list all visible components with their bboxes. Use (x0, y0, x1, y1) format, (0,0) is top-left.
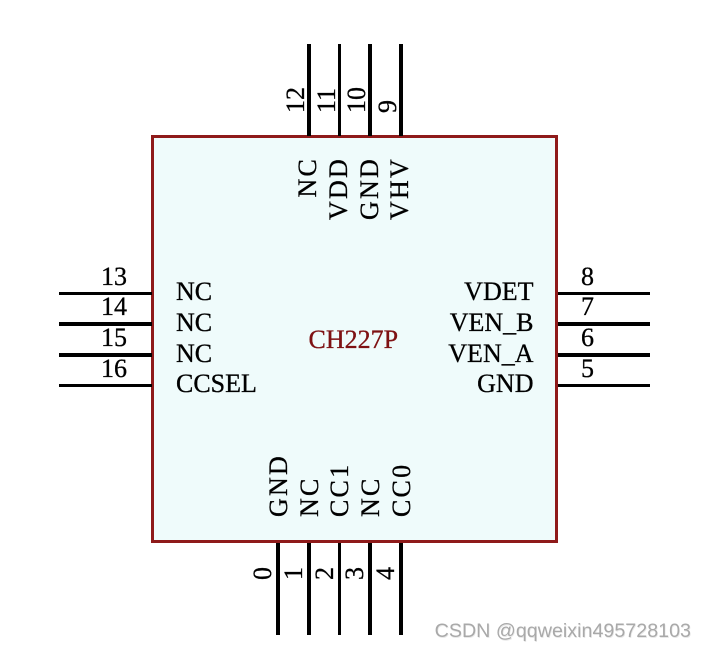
pin name GND (10) (357, 157, 383, 220)
wire pin 6 (right) (558, 353, 650, 357)
wire pin 1 (bottom) (307, 543, 311, 635)
wire pin 14 (left) (59, 322, 152, 326)
pin name NC (12) (295, 157, 321, 198)
pin number 12 (283, 87, 309, 113)
wire pin 9 (top) (399, 44, 403, 136)
wire pin 3 (bottom) (368, 543, 372, 635)
pin number 6 (581, 325, 594, 351)
pin number 7 (581, 294, 594, 320)
pin name NC (3) (358, 476, 384, 517)
pin number 16 (101, 356, 127, 382)
pin name VEN_A (6) (448, 341, 533, 367)
wire pin 13 (left) (59, 292, 152, 296)
wire pin 10 (top) (368, 44, 372, 136)
pin name VDET (8) (464, 279, 533, 305)
wire pin 11 (top) (338, 44, 342, 136)
pin number 5 (581, 356, 594, 382)
pin number 4 (373, 567, 399, 580)
pin name GND (0) (266, 454, 292, 517)
pin number 10 (344, 87, 370, 113)
pin number 3 (342, 567, 368, 580)
wire pin 2 (bottom) (338, 543, 342, 635)
pin name CC0 (4) (389, 462, 415, 516)
pin name CCSEL (16) (176, 371, 257, 397)
pin name NC (1) (297, 476, 323, 517)
pin name VHV (9) (387, 157, 413, 220)
IC U1 body (CH227P) (151, 135, 558, 543)
pin name NC (13) (176, 279, 212, 305)
wire pin 4 (bottom) (399, 543, 403, 635)
pin name NC (15) (176, 341, 212, 367)
pin number 11 (314, 88, 340, 113)
wire pin 7 (right) (558, 322, 650, 326)
wire pin 5 (right) (558, 384, 650, 388)
wire pin 16 (left) (59, 384, 152, 388)
pin number 1 (281, 567, 307, 580)
pin number 13 (101, 264, 127, 290)
pin number 9 (375, 100, 401, 113)
pin name VDD (11) (326, 157, 352, 220)
pin number 14 (101, 294, 127, 320)
wire pin 0 (bottom) (276, 543, 280, 635)
wire pin 8 (right) (558, 292, 650, 296)
pin number 0 (250, 567, 276, 580)
pin name VEN_B (7) (450, 310, 534, 336)
value label CH227P (150, 327, 557, 353)
pin name NC (14) (176, 310, 212, 336)
pin name CC1 (2) (327, 462, 353, 516)
pin number 15 (101, 325, 127, 351)
wire pin 15 (left) (59, 353, 152, 357)
watermark (435, 622, 691, 642)
wire pin 12 (top) (307, 44, 311, 136)
pin number 8 (581, 264, 594, 290)
pin number 2 (312, 567, 338, 580)
pin name GND (5) (477, 371, 533, 397)
